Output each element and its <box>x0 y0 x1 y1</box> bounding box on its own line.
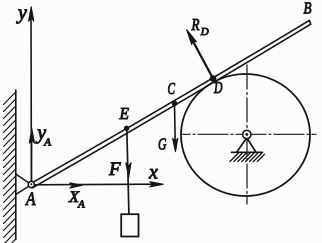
svg-text:x: x <box>148 161 158 183</box>
x axis <box>31 182 163 187</box>
horizontal center line <box>182 133 316 135</box>
wall hatching <box>4 92 16 243</box>
node D (contact point) <box>210 75 217 82</box>
ground line <box>232 151 263 153</box>
force G (weight of beam, down from C) <box>173 104 178 153</box>
svg-text:E: E <box>119 104 130 123</box>
node C <box>172 101 178 107</box>
pulley circle <box>181 74 310 196</box>
svg-text:C: C <box>168 79 176 98</box>
force X_A arrowhead <box>70 183 83 188</box>
svg-text:F: F <box>108 159 121 180</box>
force y_A (reaction at A, upward) <box>29 129 34 185</box>
pin A <box>28 181 34 187</box>
svg-text:A: A <box>43 137 51 149</box>
svg-text:A: A <box>77 199 85 211</box>
svg-text:D: D <box>200 26 209 38</box>
svg-text:y: y <box>16 2 27 24</box>
svg-text:G: G <box>158 135 167 154</box>
reaction R_D <box>187 30 216 83</box>
weight box <box>121 214 138 236</box>
svg-text:R: R <box>191 15 200 34</box>
node E <box>124 126 129 131</box>
ground hatching <box>230 153 265 162</box>
vertical center line <box>246 65 248 204</box>
beam AB (rod, two parallel lines) <box>31 20 311 187</box>
pin at pulley center <box>243 130 251 138</box>
wall line <box>15 90 17 240</box>
y axis <box>29 7 34 185</box>
svg-text:A: A <box>24 189 35 210</box>
bracket lines from pin A to wall <box>16 174 32 195</box>
force F arrowhead (down along rope) <box>126 162 131 177</box>
svg-text:B: B <box>304 0 312 18</box>
rope from E to weight <box>127 129 129 214</box>
support triangle at pulley center <box>237 138 256 152</box>
